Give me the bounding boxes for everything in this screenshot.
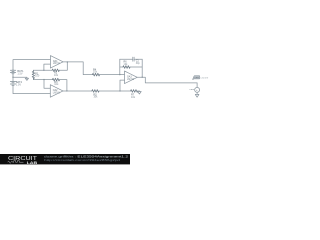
node junction OA1 output <box>67 61 68 62</box>
battery V2 <box>10 82 15 86</box>
label R2 value <box>54 71 59 77</box>
svg-text:1.50 mV: 1.50 mV <box>200 77 208 79</box>
label node voltage annotation <box>200 77 208 79</box>
wire junction to ground GND1 <box>13 76 27 78</box>
wire feedback left vertical <box>119 59 121 74</box>
wire OA1 output to R4 <box>63 62 92 75</box>
ground GND2 <box>138 91 142 94</box>
resistor R3 <box>52 78 59 81</box>
label R3 value <box>54 81 59 86</box>
label R5 value <box>93 93 98 98</box>
ground GND3 <box>195 94 199 97</box>
wire R7 lead <box>120 90 139 92</box>
svg-text:LM741: LM741 <box>53 63 61 65</box>
wire OA3 output to voltmeter branch <box>137 77 197 83</box>
svg-text:1.5V: 1.5V <box>16 84 21 87</box>
wire voltmeter stub <box>196 83 198 88</box>
voltmeter VM1 <box>195 87 200 92</box>
resistor R2 <box>52 69 59 72</box>
op-amp OA1 <box>50 56 63 69</box>
label VM1 <box>189 89 194 91</box>
op-amp OA2 <box>50 85 63 98</box>
node junction between V1 and V2 <box>12 77 13 78</box>
svg-text:LM741: LM741 <box>53 92 61 94</box>
wire top rail (OA1 feedback rail) <box>33 69 52 71</box>
svg-text:LM741: LM741 <box>127 79 135 81</box>
node junction bottom rail / OA2 riser <box>43 79 44 80</box>
svg-text:http://circuitlab.com/c/394e28: http://circuitlab.com/c/394e2856g2pd <box>44 158 121 162</box>
svg-text:1.5V: 1.5V <box>17 73 22 76</box>
wire junction to battery V2 <box>12 77 14 81</box>
resistor R1 (vertical gain resistor) <box>32 70 34 79</box>
svg-text:OUT: OUT <box>195 77 200 79</box>
wire R5 to lower node <box>99 90 120 92</box>
wire R6 rail right lead and right vertical <box>130 59 142 77</box>
wire R4 to OA3 inverting input <box>100 74 125 76</box>
node junction OA3 inverting input <box>119 74 120 75</box>
svg-text:LAB: LAB <box>27 161 38 165</box>
label R6 value <box>124 61 129 66</box>
ground GND1 <box>25 77 28 80</box>
wire OA2 output to R5 <box>63 90 92 92</box>
node junction OA3 non-inverting branch <box>119 90 120 91</box>
resistor R6 <box>123 66 130 69</box>
label V1 value <box>17 70 24 76</box>
node junction riser / top rail <box>43 70 44 71</box>
battery V1 <box>10 70 15 78</box>
wire OA1 inverting input riser <box>44 64 51 70</box>
label V2 value <box>16 81 23 87</box>
node junction OA2 output <box>66 90 67 91</box>
op-amp OA3 <box>125 71 138 84</box>
svg-text:30p: 30p <box>136 62 141 65</box>
wire R2 to OA1 output node <box>59 62 67 70</box>
label C1 value <box>136 60 141 65</box>
label R1 value <box>35 72 40 77</box>
wire voltmeter to ground <box>196 92 198 94</box>
node flag OUT <box>193 76 200 80</box>
node junction OA3 output <box>142 77 143 78</box>
resistor R7 <box>131 90 138 93</box>
wire R6 rail left lead <box>120 66 123 68</box>
label R4 value <box>93 68 98 73</box>
wire OA2 inverting input riser <box>44 80 50 89</box>
resistor R5 <box>92 90 99 93</box>
wire V1 top to OA1 non-inverting input <box>13 60 50 70</box>
resistor R4 <box>92 73 99 76</box>
svg-text:100: 100 <box>35 75 40 78</box>
wire V2 bottom to OA2 non-inverting input <box>13 85 50 93</box>
footer bar <box>0 154 130 165</box>
wire capacitor rail <box>120 58 142 60</box>
CircuitLab logo <box>8 156 38 165</box>
wire bottom rail (OA2 feedback rail) <box>33 79 52 81</box>
svg-text:VM1: VM1 <box>189 89 194 91</box>
wire R3 to OA2 output node <box>60 80 67 91</box>
footer author text <box>44 154 128 162</box>
label R7 value <box>131 93 136 99</box>
wire riser to OA3 non-inverting input <box>120 80 125 91</box>
capacitor C1 <box>133 57 134 61</box>
